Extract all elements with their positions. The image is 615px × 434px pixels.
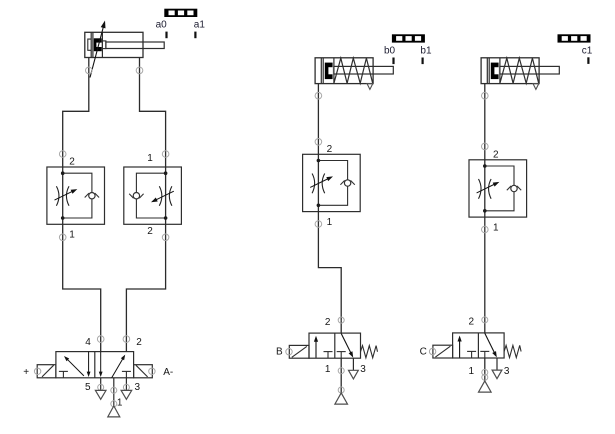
compressed air supply of valve A — [108, 406, 120, 417]
svg-text:1: 1 — [117, 398, 123, 409]
sensor label a1 — [194, 20, 206, 31]
label + — [23, 367, 29, 378]
svg-text:1: 1 — [327, 217, 333, 228]
node on port 1 line of valve A — [111, 387, 117, 393]
distance ruler c — [558, 34, 591, 42]
node valve A port 2 — [123, 336, 130, 343]
port label 1 of valve B — [325, 364, 331, 375]
port 3 stub of valve C — [496, 358, 498, 370]
exhaust of valve B — [349, 370, 359, 379]
svg-text:B: B — [276, 347, 283, 358]
distance ruler a — [164, 9, 197, 17]
one-way flow control valve V3 — [303, 154, 361, 211]
node port 5 of valve A — [98, 384, 104, 390]
port label 1 of V2 — [147, 153, 153, 164]
svg-text:c1: c1 — [582, 46, 593, 57]
port 3 stub of valve A — [125, 378, 127, 391]
port label 2 of V2 — [147, 226, 153, 237]
node flow valve V2 bottom — [162, 234, 169, 241]
port label 3 of valve B — [360, 364, 366, 375]
one-way flow control valve V1 — [47, 167, 105, 224]
svg-text:2: 2 — [327, 144, 333, 155]
svg-text:3: 3 — [360, 364, 366, 375]
port label 1 of V3 — [327, 217, 333, 228]
node port 1 of valve A — [111, 401, 117, 407]
compressed air supply of valve B — [335, 393, 348, 404]
node flow valve V4 bottom — [482, 226, 489, 233]
port 1 stub of valve B — [340, 358, 342, 393]
solenoid + of valve A — [37, 365, 56, 378]
node port 2 of valve B — [338, 317, 344, 323]
label A- — [163, 367, 173, 378]
node on port 1 line of valve B — [338, 368, 344, 374]
node cylinder A left port — [86, 67, 93, 74]
svg-text:1: 1 — [69, 230, 75, 241]
single-acting cylinder C — [481, 58, 559, 90]
5/2-way valve A body — [56, 352, 134, 378]
wire cylinder B to flow valve V3 — [317, 84, 319, 155]
svg-text:1: 1 — [325, 364, 331, 375]
solenoid B of valve B — [289, 345, 309, 358]
svg-text:2: 2 — [469, 317, 475, 328]
svg-text:5: 5 — [85, 382, 91, 393]
exhaust at port 5 of valve A — [95, 390, 106, 399]
wire cylinder C to flow valve V4 — [484, 84, 486, 160]
svg-text:3: 3 — [504, 366, 510, 377]
node on port 1 line of valve C — [482, 374, 488, 380]
label C — [420, 347, 427, 358]
svg-text:2: 2 — [136, 337, 142, 348]
svg-text:1: 1 — [147, 153, 153, 164]
port label 3 of valve C — [504, 366, 510, 377]
port label 2 of V4 — [493, 149, 499, 160]
node flow valve V3 top — [315, 139, 322, 146]
port label 2 of V3 — [327, 144, 333, 155]
port label 1 of V4 — [493, 223, 499, 234]
svg-text:a1: a1 — [194, 20, 206, 31]
svg-text:C: C — [420, 347, 427, 358]
wire flow valve V2 to valve A port 2 — [126, 224, 165, 351]
sensor mark a1 — [194, 32, 196, 39]
wire flow valve V1 to valve A port 4 — [63, 224, 101, 351]
compressed air supply of valve C — [479, 381, 492, 392]
svg-text:4: 4 — [85, 337, 91, 348]
distance ruler b — [392, 34, 425, 42]
port label 1 of valve A — [117, 398, 123, 409]
wire flow valve V3 to valve B port 2 — [318, 212, 341, 321]
solenoid A- of valve A — [134, 365, 153, 378]
svg-text:2: 2 — [493, 149, 499, 160]
connection node at solenoid C — [429, 348, 435, 354]
port 1 stub of valve C — [484, 358, 486, 381]
node cylinder C port — [482, 92, 489, 99]
wire flow valve V4 to valve C port 2 — [484, 217, 486, 320]
exhaust at port 3 of valve A — [121, 390, 132, 399]
svg-text:a0: a0 — [156, 20, 168, 31]
3/2-way valve C body — [453, 333, 521, 358]
port 3 stub of valve B — [352, 358, 354, 370]
3/2-way valve B body — [309, 333, 378, 358]
sensor label b0 — [384, 45, 396, 56]
double-acting cylinder A — [85, 32, 164, 57]
svg-text:A-: A- — [163, 367, 173, 378]
label B — [276, 347, 283, 358]
port label 2 of V1 — [69, 157, 75, 168]
node on port 1 line of valve B — [338, 387, 344, 393]
sensor mark b0 — [392, 58, 394, 65]
single-acting cylinder B — [315, 58, 393, 90]
svg-text:b1: b1 — [420, 45, 432, 56]
node valve A port 4 — [97, 336, 104, 343]
svg-text:1: 1 — [493, 223, 499, 234]
svg-text:2: 2 — [69, 157, 75, 168]
node port 2 of valve C — [482, 317, 488, 323]
port label 4 of valve A — [85, 337, 91, 348]
port label 5 of valve A — [85, 382, 91, 393]
node flow valve V3 bottom — [315, 221, 322, 228]
wire cylinder A left port to flow valve V1 — [63, 58, 89, 168]
node on port 1 line of valve C — [482, 369, 488, 375]
node port 3 of valve A — [123, 384, 129, 390]
port label 2 of valve A — [136, 337, 142, 348]
port 5 stub of valve A — [100, 378, 102, 391]
svg-text:2: 2 — [147, 226, 153, 237]
sensor label a0 — [156, 20, 168, 31]
sensor label b1 — [420, 45, 432, 56]
one-way flow control valve V4 — [469, 160, 527, 217]
port 1 stub of valve A — [113, 378, 115, 406]
connection node at solenoid B — [286, 349, 292, 355]
node at solenoid + — [34, 368, 40, 374]
node flow valve V1 top — [59, 151, 66, 158]
sensor mark c1 — [587, 57, 589, 64]
node at solenoid A- — [149, 368, 155, 374]
svg-text:b0: b0 — [384, 45, 396, 56]
svg-text:3: 3 — [135, 382, 141, 393]
port label 1 of V1 — [69, 230, 75, 241]
node flow valve V1 bottom — [59, 234, 66, 241]
svg-text:1: 1 — [469, 366, 475, 377]
node cylinder A right port — [136, 67, 143, 74]
port 2 stub of valve B — [340, 320, 342, 333]
port label 2 of valve B — [325, 317, 331, 328]
sensor label c1 — [582, 46, 593, 57]
motion arrow of cylinder A — [90, 21, 106, 78]
svg-text:2: 2 — [325, 317, 331, 328]
svg-text:+: + — [23, 367, 29, 378]
port 2 stub of valve C — [484, 320, 486, 333]
one-way flow control valve V2 — [124, 167, 182, 224]
solenoid C of valve C — [433, 345, 453, 358]
node flow valve V4 top — [482, 143, 489, 150]
wire cylinder A right port to flow valve V2 — [140, 58, 166, 168]
port label 1 of valve C — [469, 366, 475, 377]
node cylinder B port — [315, 92, 322, 99]
exhaust of valve C — [492, 370, 502, 379]
port label 2 of valve C — [469, 317, 475, 328]
node flow valve V2 top — [162, 151, 169, 158]
sensor mark b1 — [422, 58, 424, 65]
sensor mark a0 — [165, 32, 167, 39]
port label 3 of valve A — [135, 382, 141, 393]
